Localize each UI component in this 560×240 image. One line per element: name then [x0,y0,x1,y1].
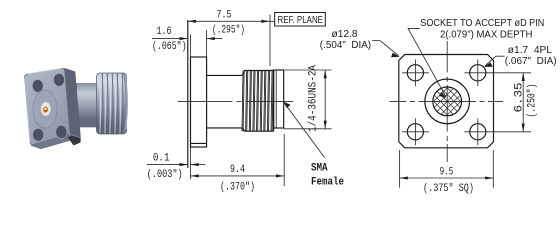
svg-text:(.250″): (.250″) [527,84,539,118]
svg-text:ø1.7 4PL: ø1.7 4PL [508,45,553,56]
svg-text:9.5: 9.5 [440,167,454,179]
svg-text:SMA: SMA [311,163,328,175]
svg-text:7.5: 7.5 [217,10,232,22]
svg-text:1/4-36UNS-2A: 1/4-36UNS-2A [308,65,320,132]
svg-text:SOCKET TO ACCEPT øD PIN: SOCKET TO ACCEPT øD PIN [420,18,544,29]
svg-text:(.065″): (.065″) [152,41,187,53]
svg-text:(.067" DIA): (.067" DIA) [505,56,557,67]
svg-text:(.295″): (.295″) [212,24,245,36]
svg-text:ø12.8: ø12.8 [332,29,359,40]
svg-text:1.6: 1.6 [157,26,172,38]
svg-text:REF. PLANE: REF. PLANE [278,15,324,26]
svg-text:(.375″ SQ): (.375″ SQ) [423,183,474,195]
svg-text:0.1: 0.1 [153,152,170,164]
svg-text:2(.079") MAX DEPTH: 2(.079") MAX DEPTH [440,29,532,40]
svg-text:(.370″): (.370″) [220,181,255,193]
svg-text:(.003″): (.003″) [147,169,183,181]
svg-text:9.4: 9.4 [230,164,245,176]
svg-text:(.504" DIA): (.504" DIA) [320,40,371,51]
svg-text:6.35: 6.35 [514,83,526,113]
svg-text:Female: Female [311,177,344,189]
